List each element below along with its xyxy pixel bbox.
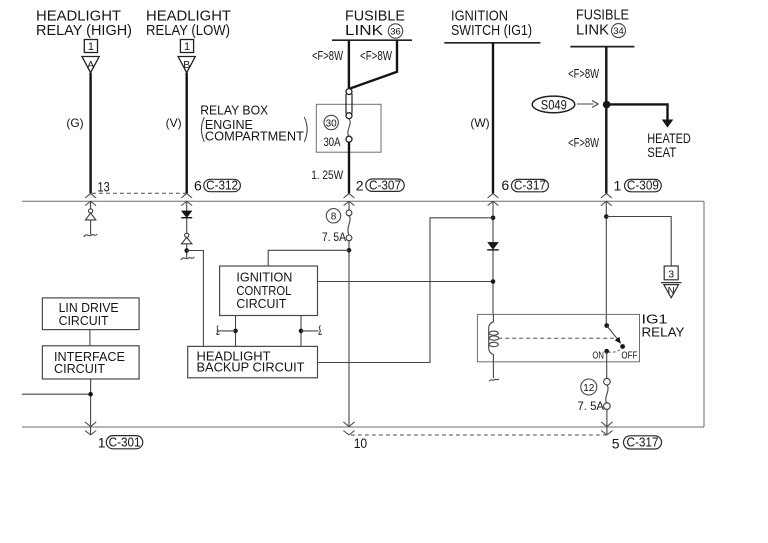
junction dot col4 upper bbox=[491, 216, 496, 221]
svg-text:(W): (W) bbox=[470, 116, 489, 130]
svg-text:LINK: LINK bbox=[576, 22, 609, 39]
wire to heated seat bbox=[607, 104, 668, 120]
svg-text:6: 6 bbox=[501, 177, 509, 193]
svg-text:<F>8W: <F>8W bbox=[360, 49, 392, 63]
svg-text:1: 1 bbox=[184, 41, 190, 53]
connector C-307 bbox=[366, 178, 404, 192]
interface circuit box U4 bbox=[42, 346, 139, 379]
ETACS unit bottom edge bbox=[22, 426, 704, 428]
svg-text:RELAY (LOW): RELAY (LOW) bbox=[146, 22, 230, 39]
crossing chevrons col3 bbox=[344, 194, 355, 206]
break squiggle col2 bbox=[181, 257, 194, 260]
terminal circle col1 bbox=[89, 209, 93, 213]
terminal circle col2 bbox=[185, 233, 189, 237]
svg-text:7. 5A: 7. 5A bbox=[322, 230, 346, 244]
ETACS unit right edge bbox=[703, 201, 705, 427]
fuse 30 box (relay box engine compartment) bbox=[316, 104, 381, 152]
svg-text:CIRCUIT: CIRCUIT bbox=[236, 296, 286, 311]
label HEATED SEAT bbox=[647, 131, 691, 160]
stub wire left with break bbox=[217, 325, 236, 334]
wire from fusible link 36 right (diagonal) bbox=[349, 40, 397, 89]
junction dot col3 bbox=[347, 248, 352, 253]
fuse 8 circled label bbox=[326, 209, 340, 223]
svg-text:36: 36 bbox=[390, 26, 401, 37]
relay ON contact dot bbox=[604, 349, 609, 354]
svg-text:34: 34 bbox=[613, 26, 624, 37]
connector C-301 bbox=[106, 435, 143, 449]
break squiggle below coil bbox=[489, 379, 499, 381]
svg-text:C-317: C-317 bbox=[627, 436, 659, 450]
wire col1 inside unit bbox=[90, 201, 92, 209]
svg-text:C-317: C-317 bbox=[514, 179, 546, 193]
crossing chevrons col5 bbox=[601, 194, 612, 206]
triangle symbol col2 bbox=[182, 237, 192, 243]
svg-text:8: 8 bbox=[331, 212, 337, 223]
svg-text:B: B bbox=[183, 59, 190, 71]
svg-text:(G): (G) bbox=[66, 116, 83, 130]
wire ICC bottom left bbox=[235, 316, 237, 347]
wire col3 inside unit bbox=[348, 201, 350, 210]
wire col4 inside unit bbox=[492, 201, 494, 314]
crossing chevrons col4 bbox=[488, 194, 499, 206]
fuse 30 label bbox=[324, 115, 338, 129]
fusible link cartridge col3 bbox=[346, 89, 352, 143]
svg-text:LINK: LINK bbox=[345, 22, 383, 39]
svg-text:7. 5A: 7. 5A bbox=[578, 399, 605, 413]
wire col5 inside unit bbox=[605, 201, 607, 325]
relay box caption bbox=[200, 103, 307, 143]
svg-text:CIRCUIT: CIRCUIT bbox=[54, 361, 105, 376]
relay mechanical link dashed bbox=[498, 337, 614, 339]
junction dot ICC bottom left bbox=[233, 329, 238, 334]
svg-text:6: 6 bbox=[194, 177, 202, 193]
junction dot col4 lower bbox=[491, 279, 496, 284]
bottom crossing chevrons col5 bbox=[601, 422, 612, 435]
splice S049 bbox=[532, 96, 598, 113]
svg-text:<F>8W: <F>8W bbox=[312, 49, 343, 63]
svg-text:30A: 30A bbox=[324, 135, 341, 149]
crossing chevrons col2 bbox=[181, 194, 192, 206]
svg-text:<F>8W: <F>8W bbox=[568, 136, 599, 150]
svg-text:HEATED: HEATED bbox=[647, 131, 691, 146]
dashed tie line pins 10 / 5 bbox=[351, 434, 606, 436]
svg-text:N: N bbox=[668, 286, 675, 297]
headlight backup circuit box U2 bbox=[188, 346, 318, 377]
relay throw arc dashed bbox=[609, 349, 622, 353]
wire ICC bottom right bbox=[300, 316, 302, 347]
junction dot col1 bottom bbox=[88, 392, 93, 397]
ignition control circuit box U1 bbox=[220, 266, 318, 316]
relay switch arm bbox=[607, 326, 619, 341]
wire col2 inside unit bbox=[186, 201, 188, 211]
svg-text:RELAY (HIGH): RELAY (HIGH) bbox=[36, 22, 132, 39]
svg-text:SEAT: SEAT bbox=[647, 145, 676, 160]
svg-text:5: 5 bbox=[612, 435, 620, 451]
connector C-309 bbox=[625, 179, 662, 193]
relay OFF contact dot bbox=[620, 344, 625, 349]
wire branch to connector 3-N bbox=[606, 217, 671, 267]
wire col4 branch to headlight backup circuit bbox=[318, 218, 494, 363]
crossing chevrons col1 bbox=[85, 194, 96, 206]
wire from ON contact down bbox=[606, 351, 608, 378]
svg-text:(V): (V) bbox=[166, 116, 182, 130]
header HEADLIGHT RELAY (LOW) bbox=[146, 8, 231, 40]
ignition switch bus bar bbox=[444, 42, 540, 44]
svg-text:COMPARTMENT: COMPARTMENT bbox=[205, 130, 304, 144]
wire col1 stub bbox=[90, 220, 92, 235]
svg-text:C-312: C-312 bbox=[206, 179, 238, 193]
arrow to heated seat bbox=[662, 120, 674, 128]
LIN drive circuit box U3 bbox=[42, 298, 139, 330]
wire col2 stub bbox=[186, 244, 188, 258]
bottom crossing chevrons col1 bbox=[85, 422, 96, 435]
svg-text:1: 1 bbox=[98, 434, 106, 450]
header FUSIBLE LINK 34 bbox=[576, 7, 629, 39]
svg-text:C-301: C-301 bbox=[109, 435, 141, 449]
svg-text:BACKUP CIRCUIT: BACKUP CIRCUIT bbox=[197, 360, 305, 375]
node S049 junction dot bbox=[603, 101, 611, 109]
label IG1 RELAY bbox=[642, 312, 685, 340]
relay switch pivot dot bbox=[604, 323, 609, 328]
svg-text:A: A bbox=[87, 59, 94, 71]
break squiggle col1 bbox=[84, 234, 97, 237]
wire from fusible link 36 left bbox=[348, 40, 350, 88]
connector terminal 1-A (headlight relay high) bbox=[82, 40, 99, 73]
wire col1 interface to bottom bbox=[90, 379, 92, 435]
ETACS unit top edge bbox=[22, 200, 704, 202]
svg-text:2: 2 bbox=[356, 178, 364, 194]
wire col5 fusible link 34 down bbox=[605, 47, 607, 194]
svg-text:1: 1 bbox=[88, 41, 94, 53]
stub wire right with break bbox=[301, 325, 322, 334]
wire col2 below diode bbox=[186, 218, 188, 234]
wire feed to ignition control circuit bbox=[268, 250, 349, 266]
svg-text:C-307: C-307 bbox=[369, 178, 401, 192]
header IGNITION SWITCH (IG1) bbox=[451, 8, 532, 40]
svg-text:1. 25W: 1. 25W bbox=[311, 168, 344, 182]
svg-text:RELAY BOX: RELAY BOX bbox=[200, 103, 269, 117]
connector C-317 bbox=[512, 179, 549, 193]
connector C-312 bbox=[204, 179, 241, 193]
svg-text:<F>8W: <F>8W bbox=[568, 67, 599, 81]
svg-text:ON: ON bbox=[592, 350, 604, 362]
svg-text:1: 1 bbox=[614, 177, 622, 193]
wire col2 from relay B down bbox=[185, 73, 187, 194]
svg-text:30: 30 bbox=[326, 118, 338, 129]
junction dot ICC bottom right bbox=[299, 329, 304, 334]
relay coil L1 bbox=[489, 314, 499, 378]
connector terminal 3-N bbox=[661, 266, 681, 298]
junction dot col5 bbox=[604, 214, 609, 219]
bottom crossing chevrons col3 bbox=[343, 422, 354, 435]
relay switch arm arrowhead bbox=[615, 337, 621, 344]
fuse 12 element bbox=[604, 378, 611, 409]
wire ICC right to col4 bbox=[318, 281, 494, 283]
header HEADLIGHT RELAY (HIGH) bbox=[36, 8, 132, 40]
IG1 relay box bbox=[477, 314, 639, 361]
svg-text:13: 13 bbox=[98, 178, 110, 194]
svg-text:SWITCH (IG1): SWITCH (IG1) bbox=[451, 22, 532, 39]
svg-text:10: 10 bbox=[354, 435, 368, 451]
wire col4 ignition switch down bbox=[492, 43, 494, 194]
fuse 8 element bbox=[346, 210, 352, 241]
connector terminal 1-B (headlight relay low) bbox=[178, 40, 195, 73]
fusible link 34 bus bar bbox=[570, 46, 634, 48]
diode D1 (col2, cathode down) bbox=[181, 211, 192, 218]
diode D2 (col4, cathode down) bbox=[487, 242, 499, 250]
wire left feed bbox=[22, 393, 91, 395]
wire col3 below fuse 30 bbox=[348, 142, 350, 193]
svg-text:RELAY: RELAY bbox=[642, 325, 685, 340]
wire col2 branch to headlight backup circuit bbox=[187, 251, 204, 347]
dashed tie line pins 13 / 6 bbox=[92, 192, 186, 194]
header FUSIBLE LINK 36 bbox=[345, 8, 405, 40]
svg-text:S049: S049 bbox=[541, 97, 567, 112]
wire col1 from relay A down bbox=[89, 73, 91, 194]
connector C-317 bottom bbox=[624, 436, 662, 450]
triangle symbol col1 bbox=[85, 213, 95, 220]
junction dot col2 bbox=[184, 248, 189, 253]
svg-text:C-309: C-309 bbox=[627, 179, 659, 193]
svg-text:12: 12 bbox=[583, 383, 595, 394]
svg-text:3: 3 bbox=[668, 268, 674, 280]
wire LIN to interface bbox=[89, 330, 91, 346]
wire col5 to bottom bbox=[606, 409, 608, 435]
svg-text:CIRCUIT: CIRCUIT bbox=[59, 313, 109, 328]
svg-text:OFF: OFF bbox=[621, 350, 637, 362]
fuse 12 circled label bbox=[581, 379, 597, 395]
fusible link 36 bus bar bbox=[332, 39, 412, 41]
wire col3 down to bottom bbox=[348, 241, 350, 427]
